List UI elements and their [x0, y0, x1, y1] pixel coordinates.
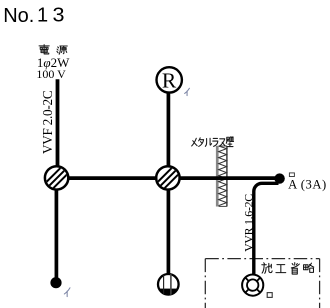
svg-text:VVF 2.0-2C: VVF 2.0-2C — [40, 90, 55, 154]
svg-text:A (3A): A (3A) — [288, 177, 327, 191]
svg-text:VVR 1.6-2C: VVR 1.6-2C — [241, 194, 255, 252]
svg-text:3: 3 — [53, 5, 65, 27]
svg-text:R: R — [162, 69, 177, 93]
svg-text:No.: No. — [3, 5, 34, 27]
svg-text:100 V: 100 V — [36, 67, 66, 81]
svg-text:1: 1 — [37, 5, 48, 27]
